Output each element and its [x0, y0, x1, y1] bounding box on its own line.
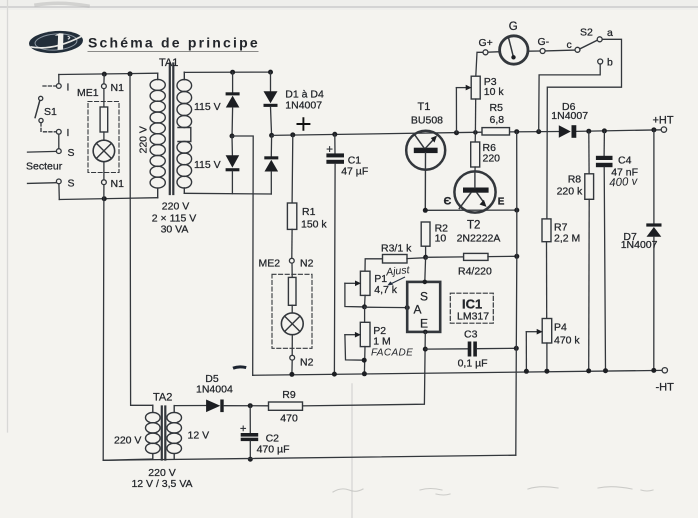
node junction R4 emitter column — [514, 254, 519, 259]
wire bridge top — [184, 71, 270, 73]
diode D3 top-right — [264, 72, 278, 133]
node junction aux rail C2 — [248, 457, 253, 462]
diode D2 bottom-left — [226, 136, 240, 194]
terminal G+ — [483, 50, 488, 55]
op-amp IC1 LM317 body — [407, 282, 440, 332]
wire bridge mid-left jog to HT minus — [232, 136, 253, 375]
svg-text:R1: R1 — [302, 206, 316, 218]
svg-text:115 V: 115 V — [194, 159, 221, 171]
resistor R3 — [365, 255, 426, 272]
transformer TA1 center tap jog — [178, 128, 191, 142]
terminal N2 top — [289, 258, 294, 263]
diode D4 bottom-right — [264, 135, 278, 194]
wire bridge bottom — [184, 192, 271, 195]
node junction minus R8 — [586, 368, 591, 373]
node junction minus N2 — [289, 372, 294, 377]
scan artifact fold line bottom — [351, 384, 353, 518]
wire emitter column — [516, 132, 517, 456]
node junction bridge mid left — [230, 134, 235, 139]
terminal S2 b — [598, 59, 603, 64]
wire I bottom to S top — [58, 134, 60, 149]
svg-text:S: S — [68, 178, 75, 190]
annotation Ajust arrow — [390, 277, 405, 284]
wire fuse to lamp ME2 — [291, 305, 293, 313]
node junction rail R6 P3 — [473, 130, 478, 135]
wire aux bottom rail — [103, 455, 516, 460]
svg-text:1 M: 1 M — [373, 336, 391, 348]
wire E pin down to R9 — [303, 332, 426, 406]
wire mains top — [59, 73, 158, 74]
node junction rail S2 b — [536, 129, 541, 134]
svg-text:1N4004: 1N4004 — [196, 384, 233, 396]
transistor T1 BU508 — [406, 131, 445, 211]
svg-text:470 µF: 470 µF — [257, 444, 290, 456]
wire lamp to N1 bottom — [103, 162, 105, 180]
potentiometer P3 — [456, 52, 485, 132]
switch S1 dashed link top — [43, 85, 56, 87]
svg-text:c: c — [567, 39, 572, 51]
svg-text:4,7 k: 4,7 k — [374, 284, 398, 296]
svg-text:220 V: 220 V — [138, 126, 150, 153]
svg-text:470 k: 470 k — [554, 335, 580, 347]
node junction mains top N1 — [102, 72, 107, 77]
svg-text:12 V: 12 V — [188, 430, 210, 442]
svg-text:LM317: LM317 — [457, 311, 489, 323]
lamp module ME1 dashed box — [88, 102, 119, 173]
node junction emitter column top row — [514, 208, 519, 213]
node junction rail R1 — [290, 132, 295, 137]
svg-text:+HT: +HT — [653, 115, 674, 127]
meter G — [500, 36, 528, 64]
terminal S2 a — [597, 37, 602, 42]
svg-text:FACADE: FACADE — [371, 348, 413, 359]
svg-text:E: E — [498, 197, 505, 208]
terminal S2 c — [575, 47, 580, 52]
node junction E pin — [423, 330, 428, 335]
wire S bottom to mains bottom — [58, 184, 60, 200]
svg-text:1N4007: 1N4007 — [285, 100, 322, 112]
lamp ME2 — [281, 313, 303, 335]
svg-text:30 VA: 30 VA — [161, 224, 189, 236]
svg-text:S: S — [420, 290, 428, 304]
plus symbol raw DC — [297, 117, 311, 130]
svg-text:S2: S2 — [580, 27, 593, 39]
svg-text:I: I — [67, 127, 70, 139]
node junction R2 R3 R4 S — [423, 255, 428, 260]
svg-text:C3: C3 — [464, 329, 478, 341]
terminal N1 bottom — [102, 180, 107, 185]
node junction rail D7 — [651, 127, 656, 132]
node junction IC1 A pin — [405, 305, 410, 310]
node junction bridge top right — [268, 70, 273, 75]
svg-text:2N2222A: 2N2222A — [457, 233, 501, 245]
wire G- to c — [545, 49, 575, 52]
fuse ME1 body — [100, 107, 108, 132]
terminal N2 bottom — [290, 355, 295, 360]
scan artifact faint squiggles bottom — [333, 487, 653, 495]
potentiometer P2 — [345, 307, 370, 374]
svg-text:TA2: TA2 — [153, 392, 172, 404]
svg-text:a: a — [607, 27, 613, 39]
node junction D5 C2 R9 — [248, 403, 253, 408]
svg-text:E: E — [420, 317, 428, 331]
lamp module ME2 dashed box — [272, 274, 312, 348]
svg-text:b: b — [607, 57, 613, 69]
svg-text:6,8: 6,8 — [490, 114, 505, 126]
terminal +HT — [661, 127, 666, 132]
wire N1 top lead — [103, 74, 105, 84]
lamp ME1 — [93, 140, 115, 162]
resistor R4 — [426, 253, 517, 260]
node junction minus P4 — [544, 369, 549, 374]
wire secteur lead lower — [28, 182, 57, 185]
capacitor C4 — [596, 131, 613, 371]
switch S1 arm — [35, 101, 40, 118]
transformer TA1 core — [170, 64, 174, 195]
annotation minus tick — [233, 367, 246, 368]
transformer TA1 primary winding — [150, 73, 165, 198]
node junction C3 left — [423, 347, 428, 352]
wire lamp ME2 to N2 bottom — [291, 335, 293, 356]
node junction P1 wiper A pin — [362, 304, 367, 309]
node junction P2 wiper — [362, 358, 367, 363]
svg-text:N2: N2 — [300, 258, 314, 270]
wire A pin — [365, 306, 408, 308]
wire meter to G- — [528, 50, 540, 52]
node junction S pin — [423, 280, 428, 285]
node junction rail T2 emitter column — [514, 129, 519, 134]
wire N2 top to fuse — [291, 263, 293, 277]
svg-text:TA1: TA1 — [159, 57, 178, 69]
svg-text:1N4007: 1N4007 — [621, 239, 658, 251]
node junction minus P4 wiper — [524, 369, 529, 374]
resistor R8 — [585, 131, 594, 371]
svg-text:10 k: 10 k — [484, 86, 505, 98]
wire N2 bottom to HT minus rail — [291, 360, 293, 374]
transformer TA2 core — [162, 407, 166, 460]
scan artifact smudge top left — [36, 3, 88, 6]
svg-text:P4: P4 — [554, 322, 567, 334]
diode D6 — [559, 125, 577, 138]
node junction rail C1 — [332, 132, 337, 137]
node junction minus C1 — [332, 372, 337, 377]
transformer TA1 secondary upper winding — [177, 72, 192, 127]
transformer TA2 secondary winding — [167, 406, 182, 459]
terminal I bottom — [56, 129, 61, 134]
svg-text:G+: G+ — [479, 37, 493, 49]
svg-text:220 V: 220 V — [162, 201, 189, 213]
wire positive rail right part — [510, 130, 662, 132]
svg-text:IC1: IC1 — [462, 297, 482, 312]
node junction minus P2 — [362, 371, 367, 376]
svg-text:R3/1 k: R3/1 k — [381, 243, 412, 255]
svg-text:C4: C4 — [618, 155, 632, 167]
wire S2 b to rail — [539, 64, 601, 132]
logo ellipse — [28, 29, 83, 55]
diode D1 top-left — [226, 72, 240, 134]
title underline — [88, 51, 258, 53]
terminal G- — [540, 49, 545, 54]
node junction bridge mid right — [269, 133, 274, 138]
svg-text:115 V: 115 V — [194, 101, 221, 113]
svg-text:N1: N1 — [111, 178, 125, 190]
svg-text:T1: T1 — [418, 101, 431, 113]
resistor R2 — [421, 222, 430, 257]
svg-text:N1: N1 — [111, 82, 125, 94]
wire HT minus rail — [253, 370, 662, 375]
wire S pin — [424, 257, 427, 282]
svg-text:ME2: ME2 — [259, 258, 281, 270]
terminal -HT — [662, 368, 667, 373]
node junction T1 base R2 — [423, 208, 428, 213]
wire mains bottom — [59, 198, 157, 200]
fuse ME2 body — [288, 277, 296, 305]
node junction mains bottom N1 — [102, 196, 107, 201]
diode D7 — [646, 130, 661, 371]
scan artifact left edge line — [7, 0, 9, 432]
svg-text:150 k: 150 k — [301, 219, 327, 231]
svg-text:Schéma de principe: Schéma de principe — [88, 35, 260, 51]
svg-text:220 k: 220 k — [557, 186, 583, 198]
svg-text:R4/220: R4/220 — [458, 266, 492, 278]
svg-text:R8: R8 — [568, 174, 582, 186]
node junction bridge top left — [230, 70, 235, 75]
svg-text:220 V: 220 V — [114, 435, 141, 447]
node junction mains top TA2 feed — [128, 71, 133, 76]
svg-text:47 µF: 47 µF — [341, 166, 368, 178]
wire TA2 feed vertical x130 — [130, 74, 153, 405]
switch S1 pivot top — [39, 96, 43, 100]
svg-text:S: S — [68, 147, 75, 159]
transformer TA2 primary winding — [146, 405, 161, 459]
wire T1 base to T2 collector row — [425, 209, 517, 211]
svg-text:R9: R9 — [282, 389, 296, 401]
svg-text:10: 10 — [435, 233, 447, 245]
svg-text:470: 470 — [280, 413, 298, 425]
capacitor C1 — [326, 134, 344, 374]
svg-text:S1: S1 — [44, 106, 57, 118]
svg-text:I: I — [67, 82, 70, 94]
potentiometer P4 — [526, 319, 551, 372]
terminal S bottom — [56, 179, 61, 184]
terminal N1 top — [102, 84, 107, 89]
resistor R7 — [542, 219, 551, 319]
svg-text:2,2 M: 2,2 M — [554, 233, 580, 245]
capacitor C3 — [425, 342, 516, 357]
resistor R1 — [287, 135, 296, 258]
IC1 label dashed box — [450, 293, 493, 323]
svg-text:0,1 µF: 0,1 µF — [458, 358, 488, 370]
node junction rail C4 — [602, 128, 607, 133]
svg-text:Є: Є — [444, 196, 452, 208]
node junction rail R8 — [586, 129, 591, 134]
svg-text:ME1: ME1 — [77, 87, 99, 99]
wire N1 down to TA2 primary bottom rail — [103, 185, 153, 461]
wire TA2 secondary to D5 — [174, 405, 206, 407]
node junction rail P3 wiper — [454, 130, 459, 135]
svg-text:1N4007: 1N4007 — [551, 110, 588, 122]
capacitor C2 — [241, 406, 259, 460]
scan artifact top edge line — [0, 6, 698, 8]
switch S1 dashed link bottom — [41, 123, 56, 132]
svg-text:Secteur: Secteur — [26, 161, 63, 173]
svg-text:400 v: 400 v — [609, 175, 639, 189]
svg-text:G-: G- — [538, 36, 550, 48]
transistor T2 2N2222A — [454, 171, 495, 212]
switch S1 pivot bottom — [39, 118, 43, 122]
svg-text:220: 220 — [483, 153, 501, 165]
node junction minus D7 — [651, 368, 656, 373]
wire secteur lead upper — [28, 150, 57, 153]
svg-text:R5: R5 — [490, 102, 504, 114]
svg-text:12 V / 3,5 VA: 12 V / 3,5 VA — [131, 478, 192, 490]
wire N1 to fuse — [103, 89, 105, 107]
svg-text:G: G — [509, 21, 518, 33]
wire positive rail left part — [272, 132, 482, 135]
node junction C3 right — [514, 346, 519, 351]
potentiometer P1 — [345, 271, 370, 307]
svg-text:A: A — [414, 303, 422, 317]
node junction minus C4 — [603, 368, 608, 373]
resistor R9 — [269, 402, 303, 410]
wire fuse to lamp — [103, 132, 105, 140]
wire terminal I top lead — [58, 75, 60, 84]
svg-text:T2: T2 — [467, 220, 480, 232]
terminal I top — [56, 84, 61, 89]
diode D5 — [206, 400, 268, 413]
wire G+ to meter — [488, 51, 500, 54]
svg-text:-HT: -HT — [656, 382, 675, 394]
transformer TA1 secondary lower winding — [177, 141, 192, 193]
resistor R5 — [482, 128, 510, 135]
svg-text:BU508: BU508 — [411, 115, 443, 127]
switch S2 arm — [580, 40, 598, 49]
terminal S top — [56, 149, 61, 154]
resistor R6 — [471, 132, 480, 171]
wire S2 a wrap to R7 column — [547, 39, 622, 219]
svg-text:N2: N2 — [300, 357, 314, 369]
